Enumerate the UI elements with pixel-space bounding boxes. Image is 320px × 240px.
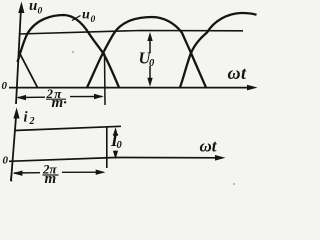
curve hump3 u0 <box>180 13 257 88</box>
svg-text:0: 0 <box>149 58 155 69</box>
scan corner mark bottom-left <box>10 176 13 182</box>
svg-text:2: 2 <box>29 116 35 127</box>
svg-text:0: 0 <box>2 80 8 92</box>
dimension arrow 2pi/m (bottom plot, left segment) <box>13 171 40 176</box>
svg-text:m·: m· <box>52 95 68 111</box>
U0 dimension arrow (lower) <box>147 66 152 87</box>
svg-text:0: 0 <box>91 15 96 25</box>
scan speck <box>72 51 74 53</box>
I0 dimension arrow (up) <box>113 127 118 136</box>
leader line to curve label u0 <box>72 16 81 21</box>
svg-text:0: 0 <box>117 140 123 151</box>
svg-text:u: u <box>82 8 90 23</box>
label u0 (vertical axis) <box>29 0 43 17</box>
x-axis wt (top plot) <box>9 85 258 91</box>
I0 dimension arrow (down) <box>113 151 118 160</box>
svg-text:u: u <box>29 0 37 14</box>
x-axis wt (bottom plot) <box>9 155 226 161</box>
scan speck <box>233 183 235 185</box>
curve hump0 falling tail <box>19 51 38 88</box>
U0 dimension arrow (upper) <box>147 32 152 53</box>
curve hump1 u0 <box>18 15 120 88</box>
label u0 (curve) <box>82 8 96 26</box>
label U0 <box>139 49 156 70</box>
svg-text:ωt: ωt <box>228 63 248 83</box>
current pulse i2 right edge <box>106 126 108 168</box>
y-axis i2 (bottom plot) <box>11 108 20 182</box>
current pulse i2 top edge <box>15 126 122 130</box>
label i2 <box>24 110 35 128</box>
svg-text:0: 0 <box>3 155 9 167</box>
y-axis u0 (top plot) <box>16 2 24 105</box>
label wt (top plot) <box>228 63 248 83</box>
svg-text:i: i <box>24 110 28 126</box>
label I0 <box>110 130 123 151</box>
horizontal line U0 level <box>19 31 243 35</box>
label 2pi/m (bottom plot) <box>42 162 59 188</box>
dimension arrow 2pi/m (bottom plot, right segment) <box>62 170 106 175</box>
svg-text:m: m <box>45 171 57 186</box>
scan speck <box>152 18 154 20</box>
vertical line at hump crossing (x=105) <box>104 53 107 105</box>
svg-text:ωt: ωt <box>200 137 218 156</box>
svg-text:0: 0 <box>38 7 43 17</box>
dimension arrow 2pi/m (top plot, left segment) <box>16 95 45 100</box>
label 2pi/m (top plot) <box>46 86 68 111</box>
dimension arrow 2pi/m (top plot, right segment) <box>70 94 104 99</box>
curve hump2 u0 <box>87 17 206 88</box>
